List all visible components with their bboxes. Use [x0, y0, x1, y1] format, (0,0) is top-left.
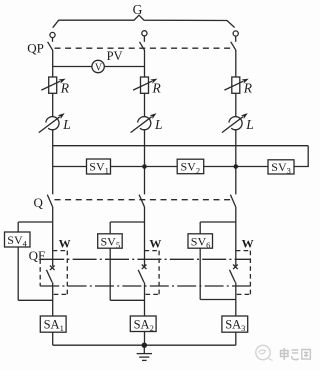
- svg-text:R: R: [60, 80, 70, 95]
- svg-text:SV4: SV4: [7, 233, 27, 249]
- wire phase3 QF to SA3: [235, 282, 237, 316]
- wire phase1 QF to SA1: [52, 282, 54, 316]
- wire PV branch left: [53, 66, 92, 68]
- SV4 bypass return: [18, 299, 53, 301]
- switch Q pole 2 blade: [139, 195, 144, 207]
- generator bus (top, with tap under G): [53, 15, 235, 28]
- wire phase2 QF to SA2: [144, 282, 146, 316]
- svg-text:SA3: SA3: [225, 318, 245, 334]
- svg-text:SV6: SV6: [191, 235, 211, 251]
- wire phase2 L down to Q: [144, 129, 146, 194]
- reactor L phase 3: [229, 117, 242, 130]
- QP pole 2 blade: [140, 42, 145, 50]
- arrester SA2: [130, 316, 156, 332]
- reactor L phase 2: [138, 117, 151, 130]
- ground symbol: [137, 345, 152, 360]
- wire phase1 L down to Q: [52, 129, 54, 194]
- varistor SV2: [177, 159, 204, 174]
- svg-text:QF: QF: [29, 248, 46, 263]
- svg-text:R: R: [152, 80, 162, 95]
- upper tie bus: [53, 145, 309, 147]
- junction node phase2 / SV row: [142, 164, 147, 169]
- disconnector QP pole 1: fixed contact circle: [50, 32, 55, 37]
- wire phase3 L down to Q: [235, 129, 237, 194]
- QF linkage dash-dot upper: [40, 258, 250, 260]
- SV6 bypass return: [200, 299, 236, 301]
- svg-text:SV3: SV3: [271, 160, 291, 176]
- SV5 bypass left drop: [109, 222, 111, 234]
- wire phase1 R to L: [52, 93, 54, 117]
- reactor L phase 1: [46, 117, 59, 130]
- svg-text:L: L: [154, 117, 163, 132]
- breaker QF pole 2 blade: [138, 270, 144, 283]
- wire PV branch right: [104, 66, 144, 68]
- switch Q pole 1 blade: [47, 195, 52, 207]
- voltmeter PV: [92, 60, 104, 72]
- SV6 bypass branch top: [200, 221, 236, 223]
- svg-text:SV1: SV1: [89, 160, 109, 176]
- SV4 bypass left riser: [17, 247, 19, 300]
- watermark text dian-qi-quan: [281, 348, 311, 360]
- wire phase3 QP to R: [235, 50, 237, 77]
- junction node phase2 / ground bus: [142, 343, 147, 348]
- svg-text:L: L: [245, 117, 254, 132]
- wire SA3 to ground bus: [235, 332, 237, 345]
- ground bus: [53, 344, 236, 346]
- svg-text:SA1: SA1: [44, 318, 64, 334]
- breaker QF pole 2 contact x: [142, 265, 147, 270]
- svg-text:SV5: SV5: [101, 235, 121, 251]
- disconnector QP pole 2: fixed contact circle: [142, 31, 147, 36]
- wire phase2 Q to QF: [144, 207, 146, 266]
- wire SA1 to ground bus: [52, 332, 54, 345]
- svg-text:L: L: [62, 117, 71, 132]
- wire phase1 QP to R: [52, 50, 54, 77]
- QP pole 3 stub: [235, 36, 237, 42]
- SV6 bypass left riser: [199, 248, 201, 299]
- breaker QF pole 1 blade: [46, 270, 52, 283]
- varistor SV6: [188, 234, 213, 248]
- svg-text:W: W: [242, 237, 254, 251]
- breaker QF pole 3 contact x: [233, 265, 238, 270]
- svg-text:V: V: [95, 62, 103, 73]
- wire SV row seg 3: [204, 166, 268, 168]
- wire phase2 QP to R: [144, 50, 146, 77]
- resistor R phase 1: [49, 77, 57, 93]
- QF pole 2 dashed frame: [145, 251, 160, 295]
- breaker QF pole 3 blade: [230, 270, 236, 283]
- SV4 bypass left drop: [17, 222, 19, 232]
- svg-text:G: G: [133, 2, 143, 17]
- SV6 bypass left drop: [199, 222, 201, 234]
- QP pole 1 stub: [52, 38, 54, 42]
- wire phase1 Q to QF: [52, 207, 54, 266]
- Q interlink dashed line: [55, 199, 233, 201]
- arrester SA1: [40, 316, 66, 332]
- svg-text:PV: PV: [107, 49, 123, 63]
- wire phase2 R to L: [144, 93, 146, 117]
- resistor R phase 2: [141, 77, 149, 93]
- wire phase3 R to L: [235, 93, 237, 117]
- svg-text:Q: Q: [34, 195, 44, 210]
- SV5 bypass branch top: [110, 221, 144, 223]
- SV5 bypass return: [110, 299, 144, 301]
- varistor SV4: [5, 232, 31, 247]
- svg-text:W: W: [59, 237, 71, 251]
- SV4 bypass branch top: [18, 221, 53, 223]
- QF pole 3 dashed frame: [236, 251, 251, 295]
- svg-text:QP: QP: [27, 41, 44, 56]
- varistor SV3: [268, 160, 294, 174]
- QF linkage dash-dot lower: [40, 285, 250, 287]
- varistor SV5: [98, 234, 123, 248]
- svg-text:R: R: [243, 80, 253, 95]
- wire SV row seg 2: [111, 166, 178, 168]
- QP interlink dashed line: [55, 47, 232, 49]
- svg-text:SA2: SA2: [134, 318, 154, 334]
- QP pole 1 blade: [48, 42, 53, 50]
- QP pole 3 blade: [231, 42, 236, 50]
- junction node phase3 / SV row: [234, 164, 239, 169]
- wire SA2 to ground bus: [144, 332, 146, 346]
- varistor SV1: [87, 159, 111, 174]
- watermark logo: [256, 345, 273, 360]
- SV5 bypass left riser: [109, 248, 111, 300]
- wire phase3 Q to QF: [235, 207, 237, 266]
- disconnector QP pole 3: fixed contact circle: [233, 31, 238, 36]
- wire SV row seg 1: [53, 166, 87, 168]
- tie bus right drop: [294, 146, 308, 167]
- switch Q pole 3 blade: [230, 195, 235, 207]
- QP pole 2 stub: [143, 36, 145, 42]
- arrester SA3: [222, 316, 248, 332]
- resistor R phase 3: [232, 77, 240, 93]
- svg-text:W: W: [149, 237, 161, 251]
- breaker QF pole 1 contact x: [50, 266, 55, 271]
- QF pole 1 dashed frame: [40, 251, 67, 295]
- svg-text:SV2: SV2: [181, 160, 201, 176]
